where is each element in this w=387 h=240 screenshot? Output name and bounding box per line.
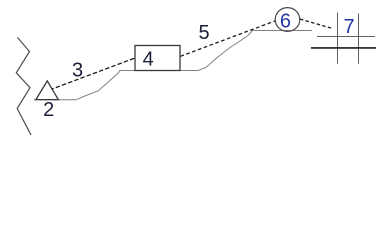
rectangle 4 (135, 46, 180, 71)
svg-text:5: 5 (199, 22, 210, 44)
svg-text:6: 6 (280, 10, 291, 32)
ground line left of station (34, 71, 135, 100)
dashed sight line 7 (circle to grid) (300, 19, 333, 29)
ground line under rectangle (135, 70, 180, 72)
dashed sight line 3 (triangle to rectangle) (52, 58, 135, 89)
break line (zigzag) left (16, 38, 31, 136)
grid right vertical (358, 14, 360, 64)
ground line right of rectangle rising to plateau (180, 31, 312, 71)
svg-text:7: 7 (344, 16, 355, 38)
svg-text:2: 2 (43, 99, 54, 121)
grid bottom horizontal (dark) (311, 47, 376, 49)
svg-text:4: 4 (143, 49, 154, 71)
grid left vertical (337, 13, 339, 64)
svg-text:3: 3 (72, 59, 83, 81)
grid top horizontal (317, 36, 375, 38)
station triangle 2 (36, 81, 58, 100)
dashed sight line 5 (rectangle to circle) (181, 21, 277, 57)
circle 6 (275, 8, 300, 32)
